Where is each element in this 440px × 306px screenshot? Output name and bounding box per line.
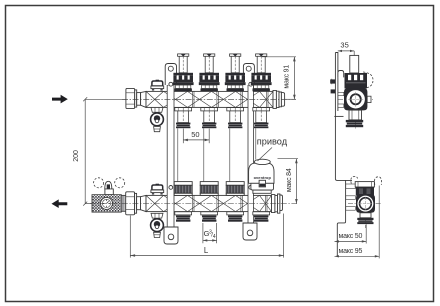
union nut lower left xyxy=(126,192,135,215)
wire: connecting pipes P1-P4 xyxy=(178,128,256,181)
valve top V1 xyxy=(173,54,194,91)
phantom positions dashed xyxy=(351,177,358,184)
return connector B4 xyxy=(253,212,270,222)
valve top V4 xyxy=(251,54,272,91)
dim 35 xyxy=(353,51,355,56)
tube joints xyxy=(193,195,267,211)
neck lower xyxy=(137,197,141,210)
svg-text:35: 35 xyxy=(340,41,348,50)
block xyxy=(356,187,374,196)
side view lower assembly xyxy=(348,177,382,229)
wall screw upper xyxy=(330,79,335,83)
ball valve handle grip xyxy=(105,181,112,189)
flow meter F3 xyxy=(226,182,244,196)
tube joints xyxy=(193,91,268,107)
right strap screw upper xyxy=(249,82,253,86)
dim макс 91 xyxy=(262,56,296,58)
lower vent cap xyxy=(151,184,164,195)
end cap upper xyxy=(273,90,276,108)
neck xyxy=(137,93,141,106)
neck below xyxy=(349,110,362,120)
valve threaded outlet xyxy=(121,195,126,211)
body side with tube circle xyxy=(356,195,375,213)
left strap screw upper xyxy=(169,82,173,86)
dim 50 xyxy=(182,129,184,144)
left bracket strap xyxy=(164,64,178,245)
return connector B3 xyxy=(227,212,244,222)
dim макс 95 xyxy=(378,186,380,259)
dim L xyxy=(129,216,131,258)
nut ring xyxy=(135,90,137,107)
foot nut side xyxy=(357,218,373,220)
actuator on lower manifold outlet 4 xyxy=(249,159,274,193)
dim extension to valve xyxy=(85,203,92,205)
left bracket foot xyxy=(164,227,178,244)
vertical axis xyxy=(364,188,366,228)
svg-text:привод: привод xyxy=(257,137,288,147)
svg-text:макс 91: макс 91 xyxy=(284,65,291,89)
dim 200 xyxy=(84,99,86,203)
valve top V2 xyxy=(199,54,220,91)
flow meter F1 xyxy=(174,182,192,196)
reducer cone upper xyxy=(141,91,146,107)
svg-text:L: L xyxy=(204,246,209,255)
return flow arrow xyxy=(52,199,68,208)
left strap screw lower xyxy=(169,186,173,190)
drain valve D2 xyxy=(151,213,164,237)
right bracket foot xyxy=(243,223,257,240)
handwheel side xyxy=(345,73,368,89)
collar top xyxy=(355,182,374,187)
foot nut side xyxy=(346,120,363,122)
phantom handwheel arc xyxy=(363,72,373,88)
stem side xyxy=(350,55,359,73)
neck below xyxy=(360,213,371,218)
bracket hook xyxy=(338,71,344,78)
right bracket top plate xyxy=(243,64,254,86)
svg-text:макс 95: макс 95 xyxy=(339,248,363,255)
wall bracket profile xyxy=(335,53,352,257)
lower manifold tube xyxy=(146,195,272,211)
flow meter F2 xyxy=(200,182,218,196)
svg-text:макс 84: макс 84 xyxy=(286,168,293,192)
bracket arm edge xyxy=(334,115,343,117)
wall screw lower xyxy=(331,89,336,93)
dim extension to nut xyxy=(85,98,126,100)
left bracket top plate xyxy=(165,64,176,86)
nut ring lower xyxy=(135,193,137,213)
tube X lattice xyxy=(146,195,272,211)
svg-text:макс 50: макс 50 xyxy=(339,233,363,240)
right bracket strap xyxy=(243,64,257,241)
bracket clips upper xyxy=(338,92,344,95)
outlet connector A3 xyxy=(227,108,244,129)
return connector B1 xyxy=(175,212,192,222)
svg-text:50: 50 xyxy=(191,130,199,139)
dim макс 50 xyxy=(365,224,367,243)
vent cap on tube xyxy=(151,80,164,91)
upper manifold tube xyxy=(146,91,273,107)
ball valve handle phantom right xyxy=(115,178,125,188)
upper axis center line xyxy=(122,98,296,100)
supply flow arrow xyxy=(52,95,68,104)
bracket clips lower xyxy=(346,184,356,189)
body side with tube circle xyxy=(344,88,367,110)
ball valve handle phantom left xyxy=(94,178,104,188)
lower axis center line xyxy=(90,203,297,205)
svg-text:oventrop: oventrop xyxy=(254,175,272,180)
dim макс 84 xyxy=(278,158,299,160)
drain valve D1 xyxy=(151,108,164,132)
right strap screw lower xyxy=(249,186,253,190)
end cap lower xyxy=(272,195,275,213)
svg-text:4: 4 xyxy=(213,234,216,240)
outlet connector A1 xyxy=(175,108,192,129)
outlet connector A2 xyxy=(201,108,218,129)
wall plate inner line xyxy=(335,53,338,112)
outlet connector A4 xyxy=(253,108,270,129)
ball valve body with thermometer xyxy=(92,195,121,212)
svg-text:200: 200 xyxy=(73,150,80,162)
tube X lattice xyxy=(146,91,273,107)
vertical axis xyxy=(355,84,357,130)
dim G3/4 xyxy=(202,223,204,243)
union nut upper left xyxy=(126,88,135,108)
side view upper assembly xyxy=(338,55,373,130)
valve top V3 xyxy=(225,54,246,91)
reducer cone lower xyxy=(141,195,147,211)
return connector B2 xyxy=(201,212,218,222)
